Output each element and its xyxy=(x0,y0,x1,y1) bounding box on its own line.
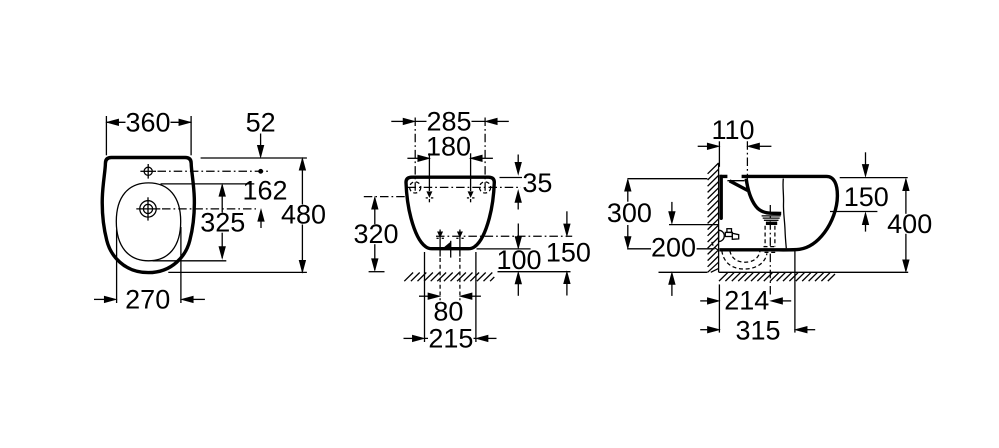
top edge extension line right xyxy=(500,177,523,179)
left fixing hole centerline vertical xyxy=(414,118,416,192)
dimension 315 xyxy=(794,251,796,333)
tap hole notch xyxy=(727,173,741,180)
basin inner wall section xyxy=(746,179,781,214)
svg-text:320: 320 xyxy=(353,219,398,249)
dimension 200 arrows xyxy=(671,202,673,213)
basin back slope xyxy=(730,181,748,191)
hidden trap outer arc xyxy=(722,251,767,269)
180 extension lines down to marks xyxy=(428,153,430,191)
hidden trap inner arc xyxy=(730,251,760,263)
svg-text:110: 110 xyxy=(711,115,754,145)
fixing point mark left xyxy=(427,192,432,197)
dimension 52 arrow xyxy=(260,134,262,147)
dimension 285 xyxy=(391,120,403,122)
svg-text:360: 360 xyxy=(125,108,170,138)
dimension 270 xyxy=(116,230,118,304)
hidden inlet-to-trap curve xyxy=(712,242,721,251)
dimension 100 arrows xyxy=(517,224,519,238)
basin front wall line xyxy=(783,179,786,249)
right fixing hole centerline vertical xyxy=(484,118,486,192)
dimension 162 arrow xyxy=(258,210,264,222)
svg-text:180: 180 xyxy=(426,132,471,162)
drain centerline dash-dot vertical xyxy=(769,205,771,297)
svg-text:400: 400 xyxy=(887,209,932,239)
right fixing hole dashed xyxy=(480,182,491,193)
dimension 35 arrows xyxy=(517,155,519,164)
drain xyxy=(140,201,156,217)
dimension 320 xyxy=(364,196,408,198)
bowl bottom extension line xyxy=(168,271,307,273)
dimension 215 xyxy=(424,252,426,342)
svg-text:80: 80 xyxy=(433,296,463,326)
drain centerline dash-dot xyxy=(162,208,256,210)
water inlet fitting xyxy=(719,230,725,241)
basin top extension line (325 reference) xyxy=(161,183,255,185)
body outline side xyxy=(719,176,837,249)
back wall bar xyxy=(720,176,723,218)
rim shelf extension right xyxy=(830,211,877,213)
top edge extension right xyxy=(840,177,908,179)
svg-text:270: 270 xyxy=(125,285,170,315)
hidden tailpipe xyxy=(764,226,766,247)
reference dot on tap centerline xyxy=(259,169,263,173)
svg-text:150: 150 xyxy=(844,182,889,212)
dimension 180 xyxy=(407,157,418,159)
dimension 480 xyxy=(301,159,303,272)
dimension 300 xyxy=(627,178,707,180)
ground hatching xyxy=(404,273,494,282)
svg-text:215: 215 xyxy=(428,323,473,353)
floor hatching xyxy=(719,273,835,281)
bidet body outline front xyxy=(406,177,494,249)
svg-text:325: 325 xyxy=(200,208,245,238)
dimension 214 xyxy=(718,284,720,332)
inlet axis line xyxy=(669,224,719,226)
dimension 80 xyxy=(419,295,429,297)
inner basin oval xyxy=(116,183,180,261)
basin bottom extension line xyxy=(153,260,227,262)
fixing holes centerline dash-dot horizontal xyxy=(408,186,522,188)
fixing point mark right xyxy=(468,192,473,197)
wall hatching xyxy=(708,163,719,272)
bidet bottom extension line right xyxy=(477,248,531,250)
tap hole xyxy=(144,167,152,175)
lower mark right xyxy=(459,230,461,257)
top edge extension line (52/480 reference) xyxy=(201,157,307,159)
drain flange lines xyxy=(762,215,781,217)
svg-text:150: 150 xyxy=(546,237,591,267)
svg-text:200: 200 xyxy=(651,233,696,263)
svg-text:52: 52 xyxy=(246,108,276,138)
lower fixing crosses centerline dash-dot xyxy=(436,235,572,237)
svg-text:315: 315 xyxy=(735,315,780,345)
left fixing hole dashed xyxy=(410,182,421,193)
dimension 325 xyxy=(221,185,223,258)
dimension 150 arrows (middle) xyxy=(566,211,568,225)
tap hole centerline dash-dot xyxy=(158,170,269,172)
small flag on bottom edge xyxy=(444,242,451,248)
svg-text:35: 35 xyxy=(522,168,552,198)
dimension 110 xyxy=(718,141,720,167)
dimension 400 xyxy=(905,180,907,272)
bidet rim outline xyxy=(102,158,194,273)
ground line xyxy=(369,271,385,273)
tap centerline dash-dot xyxy=(746,141,748,183)
bidet bottom extension left (broken for 200) xyxy=(627,248,652,250)
svg-text:100: 100 xyxy=(496,245,541,275)
dimension 150 arrows (right) xyxy=(865,152,867,165)
svg-text:214: 214 xyxy=(724,286,769,316)
svg-text:480: 480 xyxy=(281,200,326,230)
lower mark left xyxy=(439,230,441,257)
dimension 360 xyxy=(105,116,107,155)
floor line xyxy=(659,271,708,273)
wall face line xyxy=(718,163,720,272)
svg-text:300: 300 xyxy=(607,198,652,228)
